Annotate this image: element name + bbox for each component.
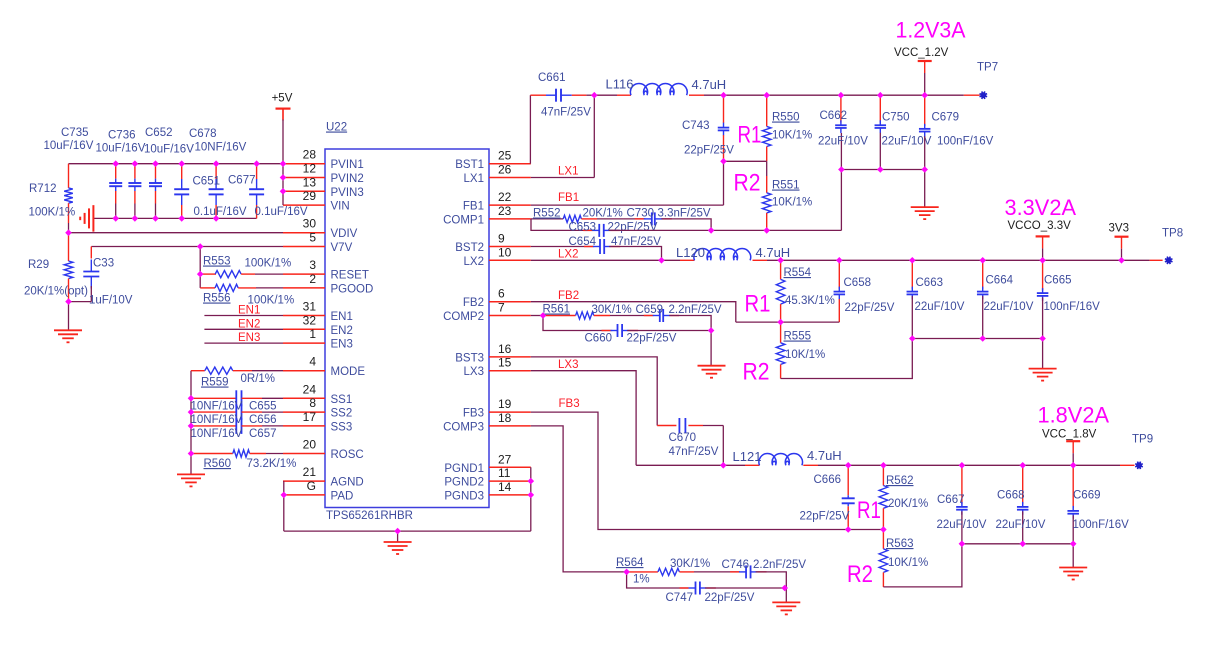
svg-text:22pF/25V: 22pF/25V <box>800 511 850 523</box>
svg-text:FB3: FB3 <box>559 398 580 410</box>
svg-text:C662: C662 <box>820 110 848 122</box>
pin 25 BST1 stub <box>489 163 531 165</box>
wire EN2 <box>204 328 283 330</box>
wire BST2 to C654 <box>531 246 594 248</box>
svg-text:BST1: BST1 <box>455 159 484 171</box>
capacitor C735 <box>115 164 117 179</box>
ground (buck2 output) <box>1029 368 1057 370</box>
wire LX2 to inductor <box>531 259 680 261</box>
svg-text:8: 8 <box>309 396 316 410</box>
svg-text:22pF/25V: 22pF/25V <box>627 333 677 345</box>
test point TP7 <box>980 92 986 98</box>
wire buck3 gnd riser <box>1072 544 1074 568</box>
svg-text:R1: R1 <box>738 122 762 149</box>
resistor R560 <box>191 453 233 455</box>
wire BST1 to C661 <box>529 95 531 164</box>
wire BST3 to C670 <box>531 357 657 426</box>
svg-text:SS3: SS3 <box>331 421 353 433</box>
svg-text:C661: C661 <box>538 72 566 84</box>
pin 21 AGND stub <box>283 480 325 482</box>
svg-text:R2: R2 <box>734 170 761 197</box>
svg-text:14: 14 <box>498 480 512 494</box>
svg-text:4.7uH: 4.7uH <box>807 448 842 463</box>
svg-text:LX1: LX1 <box>558 166 578 178</box>
ground (PAD/PGND) <box>384 541 412 543</box>
svg-text:TP8: TP8 <box>1162 228 1183 240</box>
svg-text:100nF/16V: 100nF/16V <box>1044 301 1101 313</box>
svg-text:C654: C654 <box>569 236 597 248</box>
resistor R554 <box>780 260 782 279</box>
svg-text:10NF/16V: 10NF/16V <box>191 428 243 440</box>
svg-text:4: 4 <box>309 355 316 369</box>
svg-text:PVIN1: PVIN1 <box>331 159 364 171</box>
wire comp2 gnd riser <box>710 331 712 366</box>
svg-text:R554: R554 <box>784 267 812 279</box>
resistor R564 <box>627 571 658 573</box>
svg-text:R1: R1 <box>745 291 771 318</box>
svg-text:L116: L116 <box>606 77 634 92</box>
svg-text:EN1: EN1 <box>331 311 353 323</box>
wire C746 to corner <box>756 572 787 588</box>
svg-text:BST3: BST3 <box>455 352 484 364</box>
capacitor C679 <box>924 95 926 126</box>
wire C747 to gnd <box>705 587 786 589</box>
svg-text:C735: C735 <box>61 127 89 139</box>
resistor R556 <box>200 287 215 289</box>
capacitor C677 <box>256 164 258 179</box>
svg-text:22pF/25V: 22pF/25V <box>608 222 658 234</box>
svg-text:ROSC: ROSC <box>331 449 364 461</box>
svg-text:3.3nF/25V: 3.3nF/25V <box>658 208 711 220</box>
svg-text:C656: C656 <box>249 414 277 426</box>
svg-text:LX2: LX2 <box>558 249 578 261</box>
svg-text:1: 1 <box>309 327 316 341</box>
svg-text:20K/1%: 20K/1% <box>888 498 928 510</box>
svg-text:R559: R559 <box>201 377 229 389</box>
svg-text:C663: C663 <box>916 277 944 289</box>
svg-text:47nF/25V: 47nF/25V <box>541 107 591 119</box>
pin 15 LX3 stub <box>489 370 531 372</box>
svg-text:47nF/25V: 47nF/25V <box>669 446 719 458</box>
ground (MODE/SS/ROSC) <box>177 473 205 475</box>
test point TP8 <box>1166 257 1172 263</box>
svg-text:29: 29 <box>303 189 317 203</box>
capacitor C660 <box>602 330 611 332</box>
capacitor C664 <box>982 260 984 289</box>
svg-text:2.2nF/25V: 2.2nF/25V <box>753 559 806 571</box>
resistor R551 <box>766 161 768 176</box>
svg-text:PVIN3: PVIN3 <box>331 187 364 199</box>
capacitor C743 <box>723 95 725 123</box>
pin 5 V7V stub <box>283 246 325 248</box>
pin 2 PGOOD stub <box>283 287 325 289</box>
pin 19 FB3 stub <box>489 411 531 413</box>
resistor R559 <box>191 370 205 372</box>
pin 1 EN3 stub <box>283 342 325 344</box>
svg-text:C651: C651 <box>193 176 221 188</box>
resistor R561 <box>531 315 543 317</box>
svg-text:C730: C730 <box>627 208 655 220</box>
svg-text:LX3: LX3 <box>464 366 484 378</box>
capacitor C747 <box>680 587 689 589</box>
VCC_1.8V power symbol <box>1066 440 1080 442</box>
svg-text:R564: R564 <box>616 557 644 569</box>
pin 9 BST2 stub <box>489 246 531 248</box>
wire LX3 rail to inductor <box>636 464 745 466</box>
svg-text:MODE: MODE <box>331 366 366 378</box>
svg-text:100K/1%: 100K/1% <box>245 258 292 270</box>
ground (input bus, sideways) <box>92 205 94 232</box>
svg-text:PGND3: PGND3 <box>444 490 484 502</box>
svg-text:C659: C659 <box>636 304 664 316</box>
wire buck3 gnd bus <box>962 543 1073 545</box>
capacitor C750 <box>879 95 881 122</box>
capacitor C730 <box>635 218 644 220</box>
svg-text:EN1: EN1 <box>238 305 260 317</box>
svg-text:R561: R561 <box>543 304 571 316</box>
svg-text:13: 13 <box>303 175 317 189</box>
capacitor C666 <box>847 465 849 495</box>
wire comp3 gnd riser <box>785 588 787 602</box>
svg-text:31: 31 <box>303 300 317 314</box>
svg-text:3: 3 <box>309 258 316 272</box>
svg-text:TPS65261RHBR: TPS65261RHBR <box>326 510 413 522</box>
wire C654 to LX2 <box>609 247 661 261</box>
wire C659 to corner <box>669 316 711 331</box>
svg-text:6: 6 <box>498 287 505 301</box>
ground (buck1 output) <box>911 206 939 208</box>
svg-text:EN2: EN2 <box>238 318 260 330</box>
svg-text:COMP3: COMP3 <box>443 421 484 433</box>
pin 30 VDIV stub <box>283 232 325 234</box>
svg-text:VCCO_3.3V: VCCO_3.3V <box>1008 220 1072 232</box>
svg-text:2: 2 <box>309 272 316 286</box>
wire COMP3 down <box>531 426 627 572</box>
wire R554 node <box>736 321 840 323</box>
svg-text:18: 18 <box>498 411 512 425</box>
svg-text:30K/1%: 30K/1% <box>592 304 632 316</box>
svg-text:C747: C747 <box>666 592 694 604</box>
wire C662 column <box>840 133 842 230</box>
wire FB2 <box>531 302 736 322</box>
svg-text:0.1uF/16V: 0.1uF/16V <box>255 206 308 218</box>
wire L120 to output <box>753 259 768 261</box>
svg-text:1.2V3A: 1.2V3A <box>896 18 966 43</box>
svg-text:C665: C665 <box>1044 275 1072 287</box>
svg-text:15: 15 <box>498 356 512 370</box>
capacitor C678 <box>181 164 183 179</box>
svg-text:L121: L121 <box>733 449 762 464</box>
svg-text:SS2: SS2 <box>331 408 353 420</box>
wire MODE branch <box>190 371 192 474</box>
wire AGND-PAD <box>283 481 285 495</box>
svg-text:C668: C668 <box>997 490 1025 502</box>
svg-text:0.1uF/16V: 0.1uF/16V <box>194 206 247 218</box>
svg-text:C750: C750 <box>882 112 910 124</box>
capacitor C652 <box>155 164 157 179</box>
pin 22 FB1 stub <box>489 204 531 206</box>
wire C730 to corner <box>661 219 711 231</box>
svg-text:10NF/16V: 10NF/16V <box>195 142 247 154</box>
svg-text:20K/1%(opt): 20K/1%(opt) <box>24 286 88 298</box>
svg-text:TP7: TP7 <box>977 62 998 74</box>
svg-text:22uF/10V: 22uF/10V <box>937 519 987 531</box>
wire buck2 gnd riser <box>1042 339 1044 369</box>
wire LX3 <box>531 371 636 466</box>
svg-text:EN3: EN3 <box>238 332 260 344</box>
svg-text:22uF/10V: 22uF/10V <box>996 519 1046 531</box>
svg-text:LX1: LX1 <box>464 173 484 185</box>
capacitor C661 <box>546 94 556 96</box>
svg-text:C666: C666 <box>814 474 842 486</box>
svg-text:PAD: PAD <box>331 490 354 502</box>
wire buck1 gnd riser <box>924 170 926 208</box>
pin 12 PVIN2 stub <box>283 177 325 179</box>
svg-text:C664: C664 <box>986 275 1014 287</box>
svg-text:23: 23 <box>498 204 512 218</box>
svg-text:R551: R551 <box>772 180 800 192</box>
svg-text:PGND2: PGND2 <box>444 477 484 489</box>
svg-text:LX3: LX3 <box>558 359 578 371</box>
wire buck2 gnd bus <box>912 338 1042 340</box>
pin 7 COMP2 stub <box>489 315 531 317</box>
capacitor C746 <box>730 571 739 573</box>
svg-text:10NF/16V: 10NF/16V <box>191 400 243 412</box>
svg-text:10uF/16V: 10uF/16V <box>44 140 94 152</box>
resistor R29 <box>68 233 70 261</box>
capacitor C662 <box>840 95 842 122</box>
resistor R562 <box>882 465 884 485</box>
resistor R712 <box>68 164 70 188</box>
svg-text:C667: C667 <box>937 494 965 506</box>
svg-text:5: 5 <box>309 231 316 245</box>
ground (COMP3) <box>772 601 800 603</box>
svg-text:R2: R2 <box>743 359 770 386</box>
inductor L116 <box>630 83 687 95</box>
svg-text:12: 12 <box>303 162 317 176</box>
svg-text:19: 19 <box>498 397 512 411</box>
svg-text:17: 17 <box>303 410 317 424</box>
+5V power symbol <box>276 107 291 109</box>
pin 6 FB2 stub <box>489 301 531 303</box>
svg-text:30K/1%: 30K/1% <box>670 558 710 570</box>
svg-text:16: 16 <box>498 342 512 356</box>
svg-text:EN3: EN3 <box>331 339 353 351</box>
svg-text:C655: C655 <box>249 400 277 412</box>
svg-text:100K/1%: 100K/1% <box>29 207 76 219</box>
wire C661 to LX1 node <box>572 94 587 96</box>
svg-text:C678: C678 <box>189 128 217 140</box>
svg-text:0R/1%: 0R/1% <box>241 373 276 385</box>
pin 17 SS3 stub <box>283 425 325 427</box>
svg-text:C33: C33 <box>93 258 114 270</box>
capacitor C656 <box>191 411 236 413</box>
inductor L120 <box>694 249 751 261</box>
svg-text:22pF/25V: 22pF/25V <box>845 302 895 314</box>
svg-text:R712: R712 <box>29 183 57 195</box>
pin 11 PGND2 stub <box>489 480 531 482</box>
svg-text:R1: R1 <box>857 497 881 524</box>
inductor L121 <box>759 454 803 466</box>
pin 18 COMP3 stub <box>489 425 531 427</box>
svg-text:R555: R555 <box>784 331 812 343</box>
svg-text:22uF/10V: 22uF/10V <box>818 136 868 148</box>
svg-text:TP9: TP9 <box>1132 434 1153 446</box>
wire LX1 rail to inductor <box>594 94 617 96</box>
svg-text:AGND: AGND <box>331 477 364 489</box>
wire R29-C33 bottom <box>69 301 92 303</box>
svg-text:R556: R556 <box>203 293 231 305</box>
svg-text:R562: R562 <box>886 475 914 487</box>
svg-text:R553: R553 <box>203 256 231 268</box>
svg-text:10K/1%: 10K/1% <box>772 197 812 209</box>
wire buck1 gnd bus <box>841 169 924 171</box>
svg-text:9: 9 <box>498 232 505 246</box>
svg-text:R550: R550 <box>772 112 800 124</box>
svg-text:C660: C660 <box>585 333 613 345</box>
resistor R563 <box>882 530 884 549</box>
pin 8 SS2 stub <box>283 411 325 413</box>
svg-text:C652: C652 <box>145 127 173 139</box>
resistor R552 <box>531 218 563 220</box>
wire PGND join <box>530 467 532 531</box>
svg-text:R2: R2 <box>847 561 873 588</box>
svg-text:20K/1%: 20K/1% <box>583 208 623 220</box>
capacitor C669 <box>1072 465 1074 508</box>
capacitor C670 <box>657 425 676 427</box>
wire center ground riser <box>397 531 399 542</box>
svg-text:PGOOD: PGOOD <box>331 283 374 295</box>
ground (R29/C33) <box>54 329 82 331</box>
capacitor C657 <box>191 425 236 427</box>
svg-text:FB3: FB3 <box>463 408 484 420</box>
svg-text:C746: C746 <box>722 559 750 571</box>
svg-text:V7V: V7V <box>331 242 353 254</box>
wire LX1 riser <box>531 177 595 179</box>
wire FB1 <box>531 204 724 206</box>
svg-text:10NF/16V: 10NF/16V <box>191 414 243 426</box>
pin 29 VIN stub <box>283 204 325 206</box>
wire comp bus to C662 col <box>609 229 842 231</box>
svg-text:FB2: FB2 <box>463 297 484 309</box>
pin 28 PVIN1 stub <box>283 163 325 165</box>
capacitor C651 <box>215 164 217 179</box>
svg-text:C679: C679 <box>932 112 960 124</box>
svg-text:PVIN2: PVIN2 <box>331 173 364 185</box>
wire R563 to gnd bus <box>883 544 962 587</box>
svg-text:R563: R563 <box>886 538 914 550</box>
capacitor C668 <box>1022 465 1024 504</box>
capacitor C736 <box>134 164 136 179</box>
svg-text:LX2: LX2 <box>464 256 484 268</box>
svg-text:32: 32 <box>303 313 317 327</box>
svg-text:VCC_1.2V: VCC_1.2V <box>894 47 949 59</box>
capacitor C667 <box>961 465 963 504</box>
3V3 power symbol <box>1115 236 1129 238</box>
svg-text:L120: L120 <box>676 245 705 260</box>
svg-text:G: G <box>307 479 316 493</box>
svg-text:2.2nF/25V: 2.2nF/25V <box>669 304 722 316</box>
svg-text:3.3V2A: 3.3V2A <box>1005 195 1077 220</box>
wire +5V to VIN <box>282 109 284 120</box>
svg-text:FB2: FB2 <box>558 290 579 302</box>
wire C660 to gnd node <box>627 330 711 332</box>
svg-text:22pF/25V: 22pF/25V <box>684 145 734 157</box>
resistor R553 <box>200 273 216 275</box>
svg-text:4.7uH: 4.7uH <box>692 77 727 92</box>
svg-text:SS1: SS1 <box>331 394 353 406</box>
pin 20 ROSC stub <box>283 453 325 455</box>
test point TP9 <box>1136 462 1142 468</box>
pin 10 LX2 stub <box>489 259 531 261</box>
svg-text:C653: C653 <box>569 222 597 234</box>
capacitor C654 <box>584 246 593 248</box>
svg-text:10K/1%: 10K/1% <box>888 557 928 569</box>
resistor R555 <box>780 322 782 343</box>
wire input bottom bus <box>94 217 257 219</box>
svg-text:20: 20 <box>303 438 317 452</box>
svg-text:10K/1%: 10K/1% <box>772 130 812 142</box>
capacitor C33 <box>90 260 92 272</box>
pin 13 PVIN3 stub <box>283 190 325 192</box>
svg-text:VIN: VIN <box>331 201 350 213</box>
wire V7V <box>91 246 283 248</box>
capacitor C663 <box>911 260 913 289</box>
svg-text:26: 26 <box>498 163 512 177</box>
wire COMP1 lower bus <box>531 219 594 231</box>
svg-text:C669: C669 <box>1073 490 1101 502</box>
svg-text:BST2: BST2 <box>455 242 484 254</box>
pin 16 BST3 stub <box>489 356 531 358</box>
svg-text:EN2: EN2 <box>331 325 353 337</box>
wire COMP3 lower bus <box>627 572 689 588</box>
svg-text:C657: C657 <box>249 428 277 440</box>
pin 23 COMP1 stub <box>489 218 531 220</box>
capacitor C653 <box>583 229 592 231</box>
svg-text:R560: R560 <box>204 458 232 470</box>
svg-text:22uF/10V: 22uF/10V <box>984 301 1034 313</box>
pin 31 EN1 stub <box>283 315 325 317</box>
svg-text:24: 24 <box>303 382 317 396</box>
svg-text:1.8V2A: 1.8V2A <box>1038 403 1110 428</box>
svg-text:R29: R29 <box>28 259 49 271</box>
svg-text:100nF/16V: 100nF/16V <box>937 136 994 148</box>
ground (buck3 output) <box>1059 567 1087 569</box>
svg-text:C658: C658 <box>844 277 872 289</box>
capacitor C665 <box>1042 260 1044 290</box>
svg-text:21: 21 <box>303 465 317 479</box>
svg-text:COMP2: COMP2 <box>443 311 484 323</box>
svg-text:PGND1: PGND1 <box>444 463 484 475</box>
svg-text:VDIV: VDIV <box>331 228 358 240</box>
svg-text:FB1: FB1 <box>558 192 579 204</box>
svg-text:RESET: RESET <box>331 270 369 282</box>
capacitor C659 <box>644 315 653 317</box>
ground (COMP2) <box>698 365 726 367</box>
svg-text:25: 25 <box>498 149 512 163</box>
pin 3 RESET stub <box>283 273 325 275</box>
svg-text:10K/1%: 10K/1% <box>785 349 825 361</box>
VCCO_3.3V power symbol <box>1036 235 1050 237</box>
svg-text:45.3K/1%: 45.3K/1% <box>785 295 835 307</box>
svg-text:R552: R552 <box>533 208 561 220</box>
wire VDIV <box>69 232 284 234</box>
VCC_1.2V power symbol <box>918 60 932 62</box>
svg-text:10uF/16V: 10uF/16V <box>144 144 194 156</box>
svg-text:73.2K/1%: 73.2K/1% <box>247 458 297 470</box>
svg-text:100nF/16V: 100nF/16V <box>1073 519 1130 531</box>
pin 27 PGND1 stub <box>489 466 531 468</box>
